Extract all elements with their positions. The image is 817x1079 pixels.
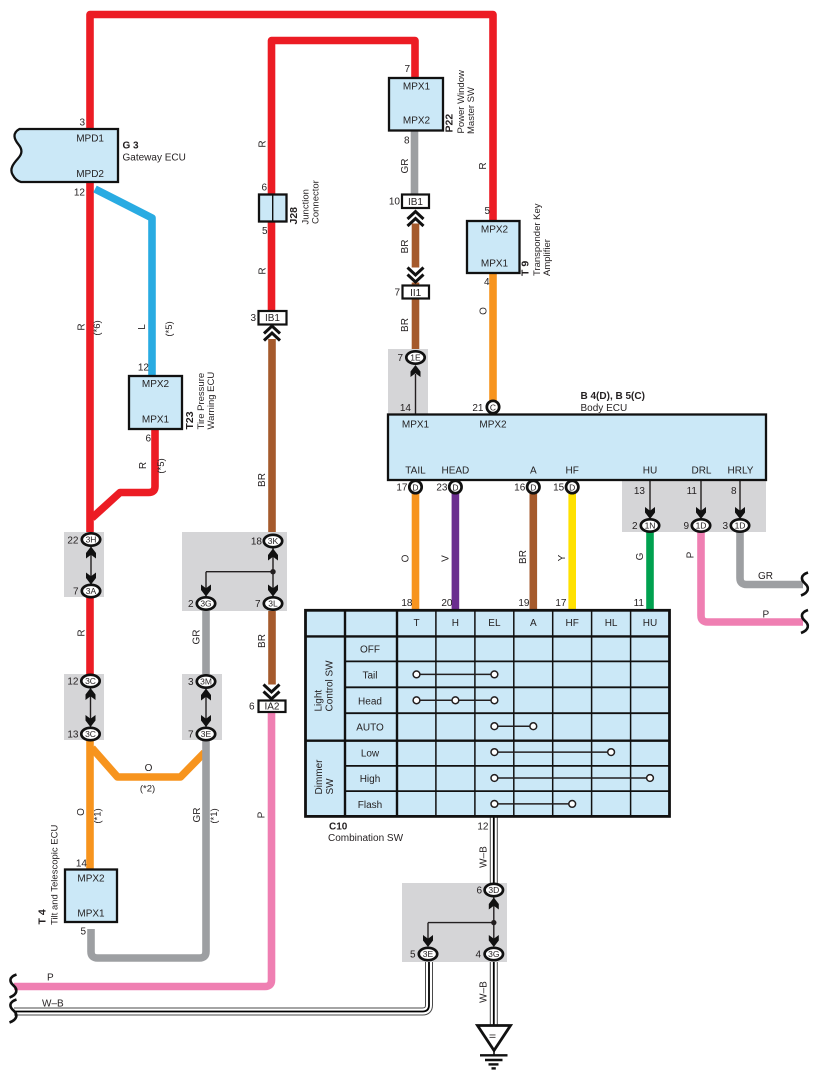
connector box labels bbox=[264, 197, 423, 713]
connector oval 3A bbox=[82, 585, 100, 597]
svg-text:13: 13 bbox=[67, 730, 79, 741]
wire L blue G3 to T23 bbox=[95, 189, 152, 377]
wire link 3H-3A bbox=[90, 545, 92, 585]
svg-text:3: 3 bbox=[250, 313, 256, 324]
wire link 1E to ECU pin 14 bbox=[415, 374, 417, 415]
svg-text:C: C bbox=[490, 402, 496, 412]
svg-text:17: 17 bbox=[396, 483, 408, 494]
svg-text:R: R bbox=[138, 462, 149, 469]
ground symbol II bbox=[478, 1026, 511, 1069]
svg-text:(*5): (*5) bbox=[164, 321, 175, 336]
wire R branch to J28 and P22 bbox=[272, 41, 416, 197]
arrow down above 1N bbox=[645, 507, 655, 519]
table header and row texts bbox=[356, 618, 657, 811]
wire BR IB1(10) to II1 to 1E bbox=[412, 208, 420, 351]
wire BR IB1 to 3K bbox=[268, 322, 276, 541]
shade box 3D/3E/3G bbox=[402, 883, 507, 962]
svg-text:14: 14 bbox=[400, 403, 412, 414]
arrow up below 3D bbox=[489, 898, 499, 910]
svg-text:A: A bbox=[530, 466, 537, 477]
svg-text:MPX2: MPX2 bbox=[142, 379, 170, 390]
svg-text:7: 7 bbox=[394, 288, 400, 299]
svg-text:II1: II1 bbox=[410, 288, 422, 299]
wire V HEAD to table bbox=[452, 492, 460, 612]
svg-text:T 9: T 9 bbox=[520, 261, 532, 276]
svg-text:1E: 1E bbox=[410, 353, 421, 363]
svg-text:HL: HL bbox=[605, 618, 618, 629]
svg-text:O: O bbox=[478, 307, 489, 315]
svg-text:(*2): (*2) bbox=[140, 784, 155, 795]
svg-text:O: O bbox=[145, 763, 153, 774]
connector IB1 (10) box bbox=[402, 195, 429, 209]
svg-text:10: 10 bbox=[389, 197, 401, 208]
connector oval 1N bbox=[641, 519, 659, 531]
svg-text:7: 7 bbox=[404, 64, 410, 75]
svg-text:MPX2: MPX2 bbox=[403, 116, 431, 127]
svg-text:HU: HU bbox=[643, 618, 657, 629]
svg-text:12: 12 bbox=[67, 677, 79, 688]
svg-text:D: D bbox=[569, 482, 575, 492]
svg-text:20: 20 bbox=[441, 598, 453, 609]
svg-text:2: 2 bbox=[632, 521, 638, 532]
svg-text:BR: BR bbox=[400, 318, 411, 332]
svg-text:D: D bbox=[412, 482, 418, 492]
connector oval 3G pin4 bbox=[485, 948, 503, 960]
wire R main spine top run to T9 bbox=[90, 15, 493, 541]
svg-text:7: 7 bbox=[397, 353, 403, 364]
svg-text:Dimmer: Dimmer bbox=[314, 759, 325, 795]
connector oval 3G pin2 bbox=[197, 597, 215, 609]
svg-text:MPX1: MPX1 bbox=[481, 259, 509, 270]
connector IA2 (6) box bbox=[259, 701, 286, 713]
svg-text:Connector: Connector bbox=[311, 180, 322, 224]
shade box 3C/3C bbox=[64, 674, 104, 740]
svg-text:G: G bbox=[635, 552, 646, 560]
wire W-B 3E to left exit bbox=[14, 960, 429, 1012]
wire O T9 to body ECU pin 21 bbox=[489, 271, 497, 401]
shade box 3H/3A bbox=[64, 532, 104, 597]
svg-text:HF: HF bbox=[566, 618, 579, 629]
wire link ECU pin 13 to 1N bbox=[649, 480, 651, 513]
ECU T4 Tilt and Telescopic ECU box bbox=[65, 870, 117, 923]
arrow down above 3A bbox=[86, 573, 96, 585]
wire link ECU pin 8 to 1D bbox=[739, 480, 741, 513]
connector oval 3E pin7 bbox=[197, 728, 215, 740]
svg-text:3A: 3A bbox=[86, 586, 97, 596]
svg-text:22: 22 bbox=[67, 536, 79, 547]
svg-text:MPX1: MPX1 bbox=[402, 420, 430, 431]
connector circle C pin21 bbox=[487, 401, 499, 413]
wire R (*5) from T23 pin 6 bbox=[92, 428, 155, 518]
wire R 3A to 3C bbox=[86, 595, 94, 681]
svg-text:7: 7 bbox=[73, 587, 79, 598]
svg-text:W–B: W–B bbox=[478, 846, 489, 868]
svg-text:Warning ECU: Warning ECU bbox=[206, 372, 217, 430]
svg-text:12: 12 bbox=[138, 363, 150, 374]
rotated wire color labels bbox=[76, 140, 697, 1002]
svg-text:3H: 3H bbox=[86, 535, 97, 545]
svg-text:T: T bbox=[413, 618, 419, 629]
svg-text:MPD2: MPD2 bbox=[76, 169, 104, 180]
svg-text:2: 2 bbox=[188, 599, 194, 610]
shade box 1N/1D/1D bbox=[622, 481, 766, 532]
svg-text:5: 5 bbox=[410, 950, 416, 961]
arrow down above 3E(5) bbox=[423, 935, 433, 947]
connector II1 (7) box bbox=[403, 286, 430, 299]
arrow up below 3H bbox=[86, 547, 96, 559]
wire link ECU pin 11 to 1D bbox=[700, 480, 702, 513]
svg-text:6: 6 bbox=[145, 434, 151, 445]
svg-text:J28: J28 bbox=[288, 207, 300, 225]
wire link 3D junction to 3E and 3G bbox=[428, 896, 494, 941]
svg-text:HRLY: HRLY bbox=[728, 466, 754, 477]
continuation squiggle P left bbox=[10, 975, 17, 998]
wire Y HF to table bbox=[568, 492, 576, 612]
connector oval labels bbox=[85, 353, 745, 960]
svg-text:Master SW: Master SW bbox=[466, 87, 477, 134]
svg-text:GR: GR bbox=[192, 808, 203, 823]
svg-text:A: A bbox=[530, 618, 537, 629]
svg-text:MPX2: MPX2 bbox=[479, 420, 507, 431]
svg-text:DRL: DRL bbox=[691, 466, 711, 477]
arrow up below 1E bbox=[411, 365, 421, 377]
continuation squiggle GR right bbox=[801, 573, 808, 596]
wire W-B 3G to ground bbox=[490, 960, 498, 1026]
svg-text:Flash: Flash bbox=[358, 800, 382, 811]
wire O (*2) branch bbox=[92, 748, 205, 777]
wire GR 3G to 3M bbox=[202, 600, 210, 678]
svg-text:Gateway ECU: Gateway ECU bbox=[123, 153, 186, 164]
svg-text:1D: 1D bbox=[696, 521, 707, 531]
shade box 1E bbox=[388, 349, 428, 415]
svg-text:HU: HU bbox=[643, 466, 657, 477]
svg-text:D: D bbox=[530, 482, 536, 492]
svg-text:Tilt and Telescopic ECU: Tilt and Telescopic ECU bbox=[50, 825, 61, 925]
connector oval 3K bbox=[264, 535, 282, 547]
continuation squiggle W-B left bbox=[10, 1000, 17, 1023]
arrow up below 12(3C) bbox=[86, 688, 96, 700]
svg-text:3: 3 bbox=[722, 521, 728, 532]
svg-text:Low: Low bbox=[361, 748, 380, 759]
wire G 1N to table bbox=[646, 530, 654, 612]
shade box 3M/3E bbox=[182, 674, 222, 740]
arrow down above 13(3C) bbox=[86, 715, 96, 727]
svg-text:V: V bbox=[441, 555, 452, 562]
svg-text:11: 11 bbox=[634, 598, 645, 609]
svg-text:OFF: OFF bbox=[360, 645, 380, 656]
switch C10 combination SW table bbox=[306, 610, 670, 816]
arrow down above 3L bbox=[268, 585, 278, 597]
wire P 1D right exit bbox=[701, 530, 803, 622]
svg-text:23: 23 bbox=[436, 483, 448, 494]
connector oval 1D pin9 bbox=[692, 519, 710, 531]
ECU B4/B5 Body ECU box bbox=[388, 415, 766, 481]
svg-text:R: R bbox=[478, 162, 489, 169]
svg-text:1D: 1D bbox=[735, 521, 746, 531]
wire O orange spine 3C to T4 bbox=[86, 738, 94, 870]
connector circle D pin15 bbox=[566, 481, 578, 493]
svg-text:EL: EL bbox=[488, 618, 501, 629]
svg-text:TAIL: TAIL bbox=[405, 466, 426, 477]
svg-text:L: L bbox=[137, 324, 148, 330]
arrow up below 3K bbox=[268, 549, 278, 561]
svg-text:18: 18 bbox=[251, 537, 263, 548]
svg-text:16: 16 bbox=[514, 483, 526, 494]
arrow down above 3E bbox=[201, 715, 211, 727]
svg-text:6: 6 bbox=[476, 886, 482, 897]
svg-text:BR: BR bbox=[518, 550, 529, 564]
connector oval 3E pin5 bbox=[419, 948, 437, 960]
svg-text:5: 5 bbox=[484, 206, 490, 217]
svg-text:MPX1: MPX1 bbox=[142, 415, 170, 426]
connector circle D pin17 bbox=[409, 481, 421, 493]
arrow up below 3M bbox=[201, 689, 211, 701]
shade box 3K/3G/3L bbox=[182, 532, 287, 611]
svg-text:H: H bbox=[452, 618, 459, 629]
svg-text:IB1: IB1 bbox=[408, 197, 423, 208]
svg-text:O: O bbox=[76, 808, 87, 816]
svg-text:14: 14 bbox=[76, 859, 88, 870]
chevron marker up below IB1(10) bbox=[407, 209, 424, 226]
connector oval 1D pin3 bbox=[731, 519, 749, 531]
svg-text:P: P bbox=[47, 973, 54, 984]
svg-text:6: 6 bbox=[261, 183, 267, 194]
svg-text:HF: HF bbox=[566, 466, 579, 477]
svg-text:21: 21 bbox=[472, 403, 484, 414]
svg-text:3G: 3G bbox=[488, 949, 499, 959]
svg-text:G 3: G 3 bbox=[123, 141, 140, 152]
svg-text:4: 4 bbox=[475, 950, 481, 961]
svg-text:C10: C10 bbox=[329, 822, 348, 833]
connector oval 3C pin12 bbox=[81, 675, 99, 687]
svg-text:3E: 3E bbox=[423, 949, 434, 959]
svg-text:AUTO: AUTO bbox=[356, 722, 384, 733]
svg-text:R: R bbox=[77, 629, 88, 636]
wire R J28 to IB1 bbox=[268, 221, 276, 317]
wire GR P22 to IB1 bbox=[411, 128, 419, 197]
svg-text:IA2: IA2 bbox=[264, 702, 279, 713]
node junction dot 3K bbox=[270, 569, 275, 574]
svg-text:3D: 3D bbox=[488, 885, 499, 895]
svg-text:GR: GR bbox=[758, 571, 773, 582]
table rotated group labels bbox=[314, 660, 337, 795]
wire BR A to table bbox=[529, 492, 537, 612]
svg-text:13: 13 bbox=[634, 486, 646, 497]
ECU G3 Gateway ECU box bbox=[11, 129, 118, 182]
svg-text:Light: Light bbox=[314, 690, 325, 712]
svg-text:5: 5 bbox=[262, 226, 268, 237]
amplifier T9 Transponder Key Amplifier box bbox=[467, 221, 520, 273]
svg-text:Body ECU: Body ECU bbox=[581, 403, 628, 414]
svg-text:W–B: W–B bbox=[478, 981, 489, 1003]
svg-text:3: 3 bbox=[79, 118, 85, 129]
svg-text:BR: BR bbox=[400, 240, 411, 254]
svg-text:SW: SW bbox=[325, 778, 336, 795]
chevron marker down above II1 bbox=[407, 268, 424, 283]
svg-text:B 4(D), B 5(C): B 4(D), B 5(C) bbox=[581, 391, 645, 402]
svg-text:1N: 1N bbox=[645, 521, 656, 531]
connector circle D pin16 bbox=[527, 481, 539, 493]
arrow down above 1D(9) bbox=[696, 507, 706, 519]
svg-text:HEAD: HEAD bbox=[442, 466, 470, 477]
junction connector J28 divider bbox=[272, 195, 274, 222]
svg-text:3E: 3E bbox=[201, 729, 212, 739]
svg-text:P: P bbox=[257, 811, 268, 818]
wire link 3C-3C bbox=[90, 687, 92, 728]
svg-text:II: II bbox=[488, 1034, 498, 1039]
connector oval 3M bbox=[197, 675, 215, 687]
svg-text:(*1): (*1) bbox=[93, 808, 104, 823]
svg-text:6: 6 bbox=[249, 702, 255, 713]
svg-text:19: 19 bbox=[518, 598, 530, 609]
chevron marker down above IA2 bbox=[263, 685, 280, 700]
connector oval 3C pin13 bbox=[81, 728, 99, 740]
svg-text:(*1): (*1) bbox=[209, 808, 220, 823]
svg-text:T23: T23 bbox=[184, 411, 196, 429]
svg-text:BR: BR bbox=[257, 634, 268, 648]
connector oval 3L bbox=[264, 597, 282, 609]
connector oval 3H bbox=[82, 533, 100, 545]
svg-text:3G: 3G bbox=[200, 599, 211, 609]
svg-text:MPX2: MPX2 bbox=[481, 225, 509, 236]
svg-text:P22: P22 bbox=[444, 114, 456, 133]
arrow down above 3G bbox=[201, 585, 211, 597]
chevron marker up below IB1(3) bbox=[264, 324, 281, 341]
wire link 3K junction to 3G and 3L bbox=[206, 547, 273, 597]
svg-text:12: 12 bbox=[477, 822, 489, 833]
connector IB1 (3) box bbox=[259, 311, 287, 325]
svg-text:Amplifier: Amplifier bbox=[542, 239, 553, 276]
node junction dot 3D bbox=[491, 920, 496, 925]
svg-text:(*6): (*6) bbox=[92, 320, 103, 335]
svg-text:R: R bbox=[77, 323, 88, 330]
svg-text:Head: Head bbox=[358, 696, 382, 707]
svg-text:12: 12 bbox=[74, 188, 86, 199]
wire link 3M-3E bbox=[205, 687, 207, 728]
svg-text:T 4: T 4 bbox=[37, 909, 49, 924]
svg-text:D: D bbox=[452, 482, 458, 492]
svg-text:GR: GR bbox=[400, 159, 411, 174]
svg-text:Y: Y bbox=[557, 554, 568, 561]
svg-text:3M: 3M bbox=[200, 677, 212, 687]
svg-text:Combination SW: Combination SW bbox=[328, 833, 404, 844]
ECU T23 Tire Pressure Warning ECU box bbox=[129, 376, 182, 429]
svg-text:MPX1: MPX1 bbox=[77, 909, 105, 920]
svg-text:MPD1: MPD1 bbox=[76, 134, 104, 145]
svg-text:P: P bbox=[686, 551, 697, 558]
connector oval 1E bbox=[406, 351, 424, 363]
svg-text:P: P bbox=[763, 610, 770, 621]
svg-text:3K: 3K bbox=[268, 536, 279, 546]
svg-text:11: 11 bbox=[687, 486, 698, 497]
svg-text:High: High bbox=[360, 774, 381, 785]
svg-text:BR: BR bbox=[257, 473, 268, 487]
svg-text:R: R bbox=[258, 140, 269, 147]
wire GR 3E down around to T4 pin 5 bbox=[91, 741, 206, 958]
svg-text:8: 8 bbox=[731, 486, 737, 497]
svg-text:GR: GR bbox=[192, 630, 203, 645]
svg-text:O: O bbox=[401, 554, 412, 562]
wire W-B table pin12 to 3D bbox=[14, 817, 494, 1026]
component inner pin names bbox=[76, 82, 754, 920]
wire BR 3L to IA2 bbox=[268, 607, 276, 702]
svg-text:4: 4 bbox=[484, 277, 490, 288]
svg-text:3C: 3C bbox=[85, 676, 96, 686]
svg-text:Control SW: Control SW bbox=[325, 660, 336, 712]
svg-text:3L: 3L bbox=[268, 599, 278, 609]
wire P IA2 to left exit bbox=[14, 710, 272, 987]
switch contacts bbox=[413, 671, 653, 807]
svg-text:IB1: IB1 bbox=[265, 313, 280, 324]
svg-text:8: 8 bbox=[404, 136, 410, 147]
svg-text:3C: 3C bbox=[85, 729, 96, 739]
svg-text:17: 17 bbox=[555, 598, 567, 609]
wire O TAIL to table bbox=[412, 492, 420, 612]
svg-text:MPX2: MPX2 bbox=[77, 874, 105, 885]
arrow down above 3G(4) bbox=[489, 935, 499, 947]
wire GR 1D right exit bbox=[740, 530, 803, 585]
continuation squiggle P right bbox=[801, 610, 808, 633]
svg-text:MPX1: MPX1 bbox=[403, 82, 431, 93]
rotated component names bbox=[37, 70, 554, 925]
svg-text:3: 3 bbox=[188, 677, 194, 688]
svg-text:15: 15 bbox=[553, 483, 565, 494]
svg-text:7: 7 bbox=[255, 599, 261, 610]
connector circle D pin23 bbox=[449, 481, 461, 493]
svg-text:Tail: Tail bbox=[362, 671, 377, 682]
svg-text:W–B: W–B bbox=[42, 999, 64, 1010]
junction connector J28 box bbox=[259, 195, 287, 222]
svg-text:5: 5 bbox=[80, 927, 86, 938]
connector oval 3D bbox=[485, 884, 503, 896]
svg-text:9: 9 bbox=[683, 521, 689, 532]
svg-text:18: 18 bbox=[401, 598, 413, 609]
arrow down above 1D(3) bbox=[735, 507, 745, 519]
svg-text:7: 7 bbox=[188, 730, 194, 741]
switch P22 Power Window Master SW box bbox=[389, 78, 443, 131]
svg-text:(*5): (*5) bbox=[156, 458, 167, 473]
svg-text:R: R bbox=[258, 267, 269, 274]
